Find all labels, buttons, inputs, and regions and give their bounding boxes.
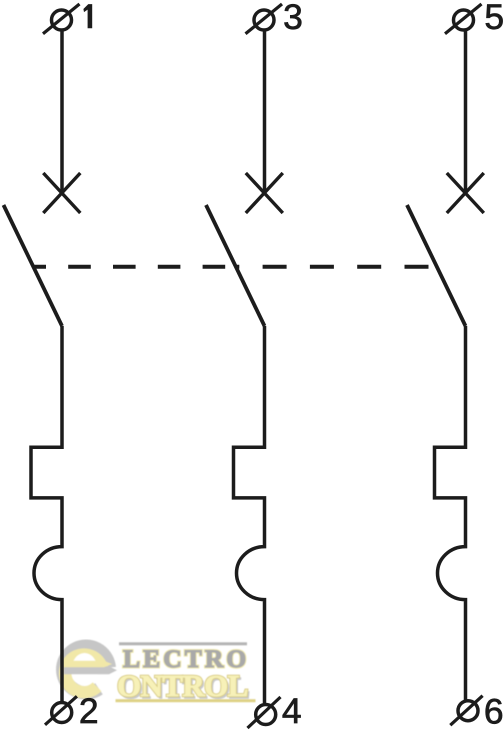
terminal 4 circle bbox=[256, 705, 276, 725]
logo big-e yellow bar bbox=[63, 661, 112, 667]
contact X pole2 bbox=[246, 173, 283, 213]
switch lever pole2 bbox=[206, 205, 265, 326]
wire terminal5 to contact bbox=[464, 29, 468, 192]
terminal 5 slash bbox=[445, 4, 482, 34]
svg-text:5: 5 bbox=[484, 0, 504, 37]
terminal 6 circle bbox=[458, 701, 478, 721]
logo top rule bbox=[119, 642, 247, 645]
logo underline bbox=[116, 699, 256, 702]
terminal 2 circle bbox=[52, 703, 72, 723]
pin label 1 bbox=[83, 4, 92, 28]
mechanical linkage dashed line left bbox=[33, 265, 237, 269]
switch lever pole1 bbox=[4, 205, 63, 326]
terminal 1 circle bbox=[52, 10, 72, 30]
terminal 6 slash bbox=[450, 696, 482, 726]
pole 3 bbox=[407, 4, 484, 725]
terminal 3 slash bbox=[246, 4, 283, 34]
pole 1 bbox=[4, 4, 81, 725]
svg-text:4: 4 bbox=[282, 691, 302, 731]
svg-text:3: 3 bbox=[283, 0, 303, 37]
wire + thermal element + magnetic coil pole1 bbox=[31, 326, 62, 701]
terminal 3 circle bbox=[254, 10, 274, 30]
terminal 2 slash bbox=[45, 696, 77, 725]
wire + thermal element + magnetic coil pole2 bbox=[234, 326, 265, 704]
svg-text:2: 2 bbox=[79, 691, 99, 731]
watermark logo ElectroControl bbox=[63, 642, 256, 705]
logo big-e yellow ring bbox=[65, 655, 102, 693]
pole 2 bbox=[206, 4, 283, 728]
terminal 4 slash bbox=[248, 697, 281, 728]
logo big-e white counter bbox=[72, 653, 98, 686]
contact X pole3 bbox=[447, 173, 484, 213]
svg-text:6: 6 bbox=[484, 691, 504, 731]
svg-text:ONTROL: ONTROL bbox=[117, 668, 248, 703]
logo big-e gray shadow ring bbox=[63, 646, 109, 692]
mechanical linkage dashed line right bbox=[237, 265, 437, 269]
logo big-e gray bar bbox=[64, 666, 117, 674]
terminal 1 slash bbox=[43, 4, 80, 34]
wire terminal3 to contact bbox=[263, 29, 267, 192]
contact X pole1 bbox=[43, 173, 80, 213]
wire terminal1 to contact bbox=[60, 29, 64, 192]
switch lever pole3 bbox=[407, 205, 466, 326]
wire + thermal element + magnetic coil pole3 bbox=[435, 326, 466, 700]
terminal 5 circle bbox=[454, 10, 474, 30]
